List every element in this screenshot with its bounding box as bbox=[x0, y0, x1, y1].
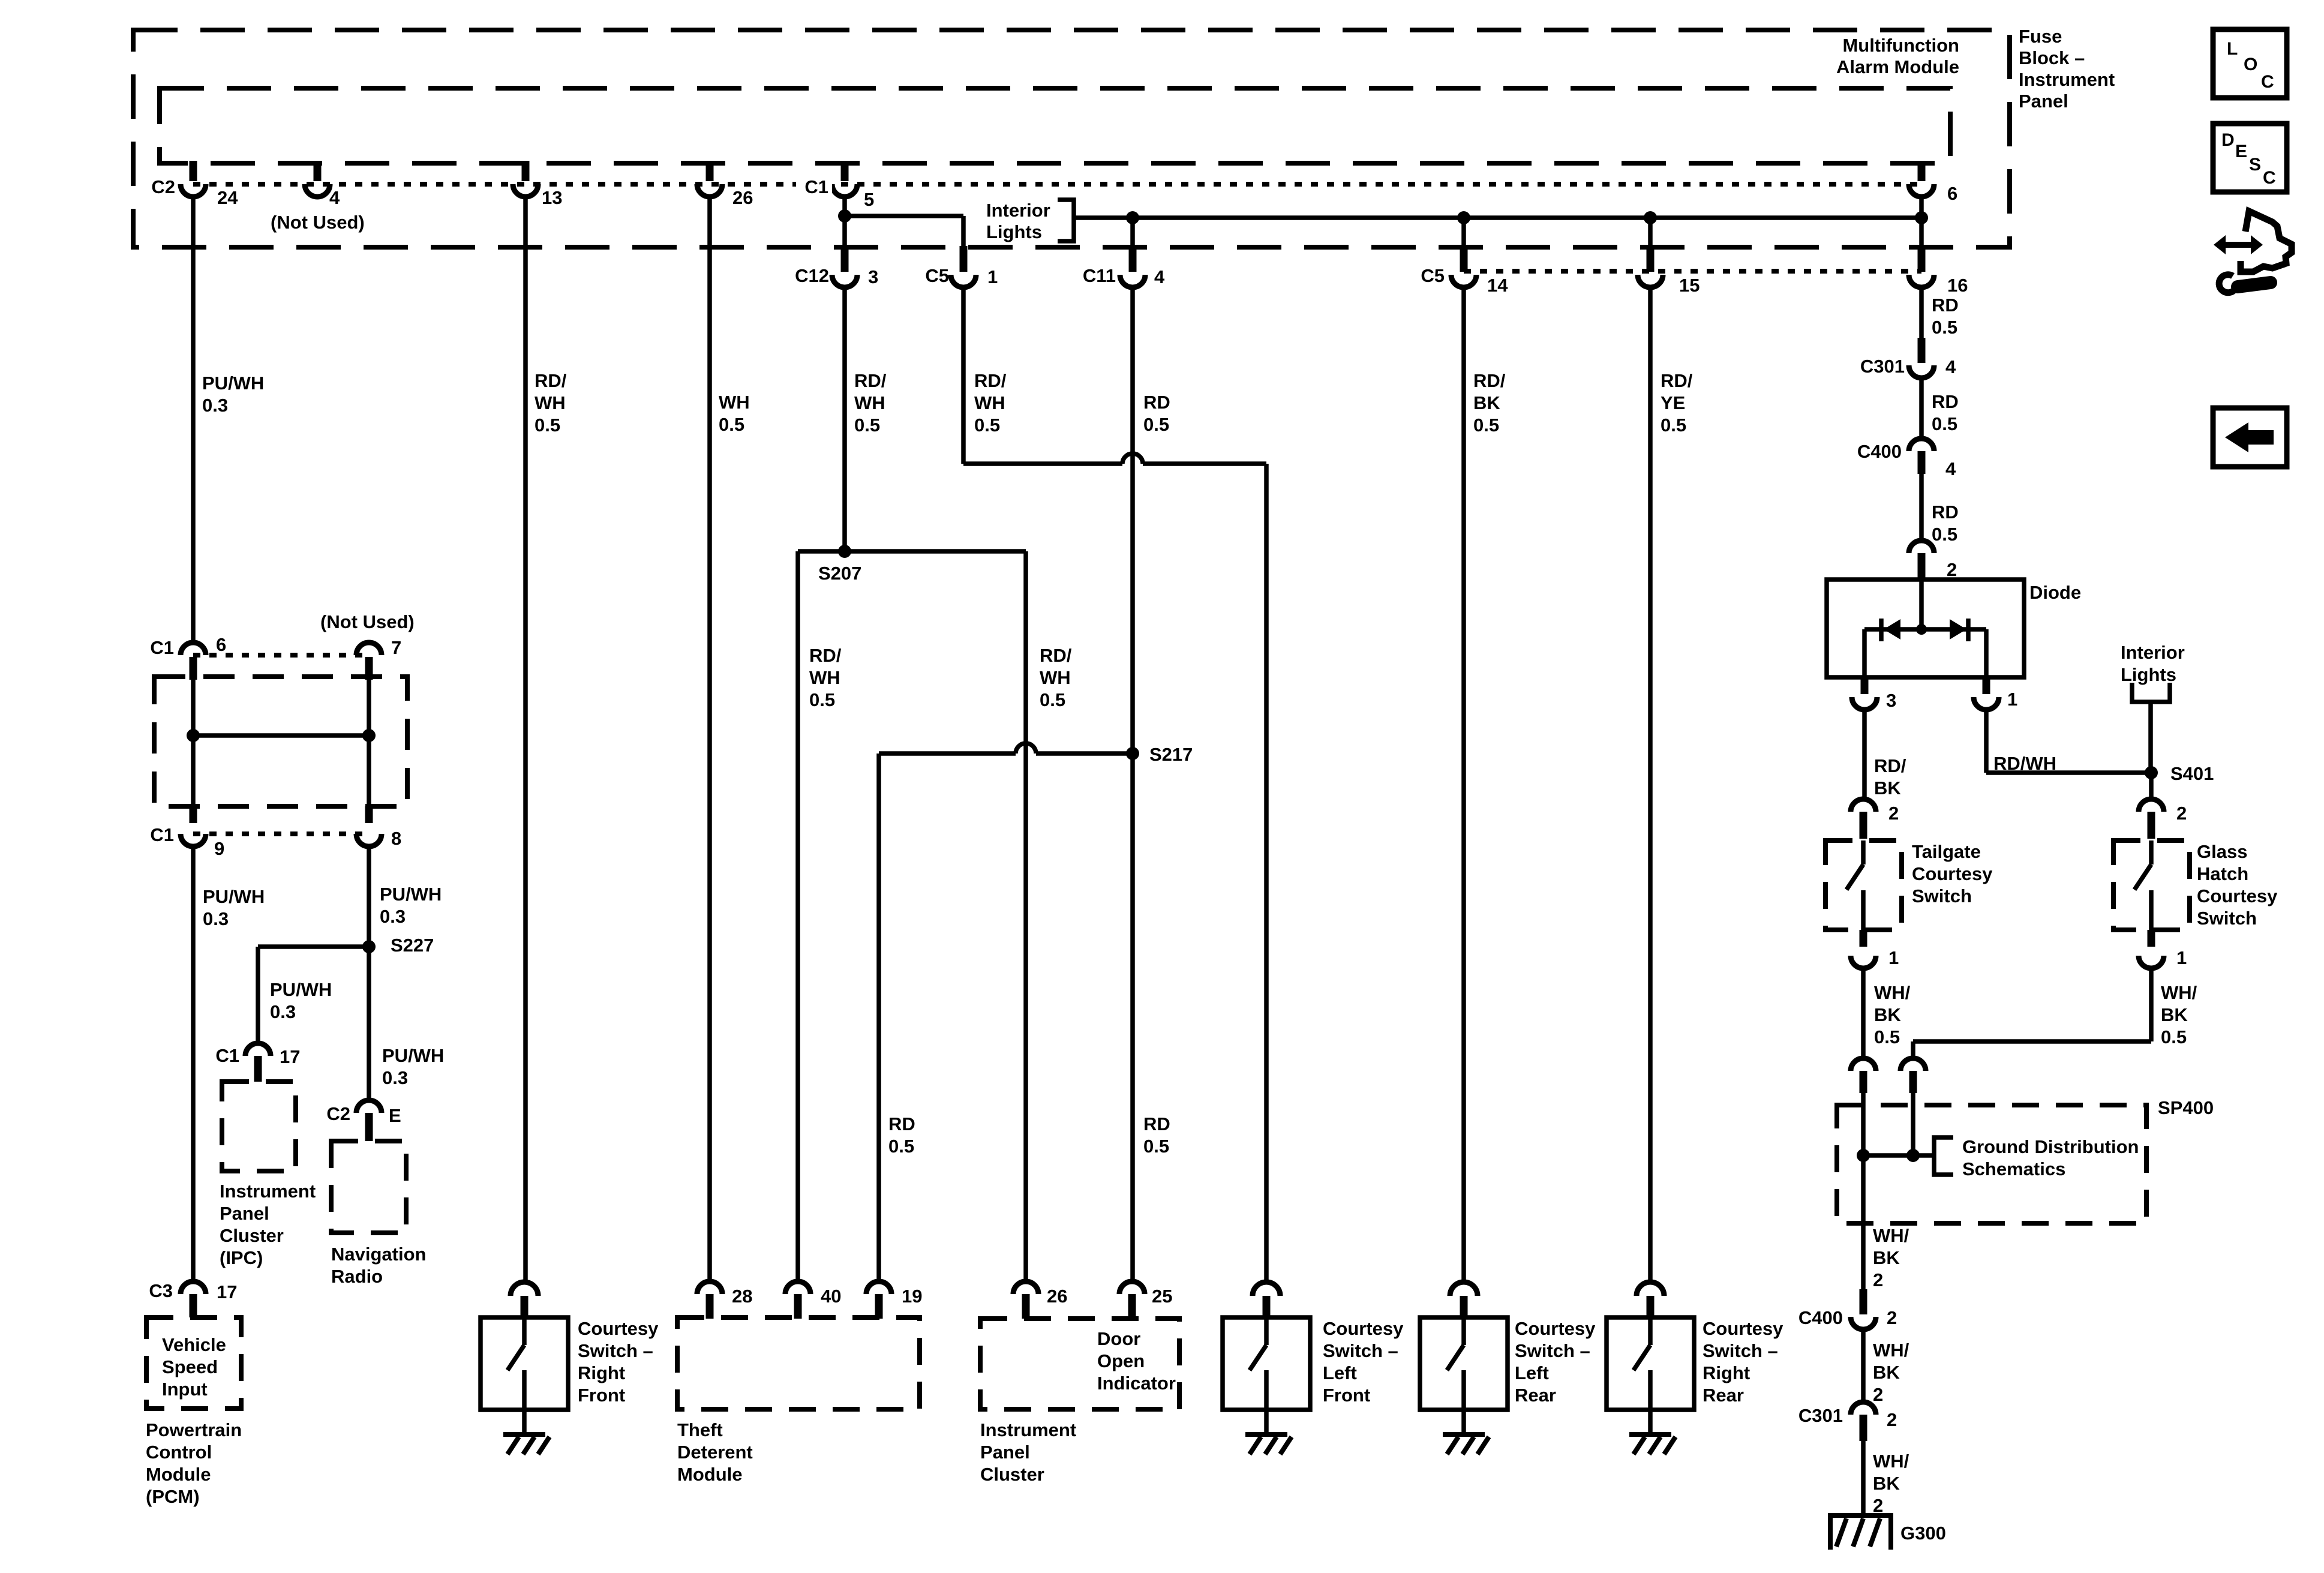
svg-text:BK: BK bbox=[1874, 778, 1901, 798]
svg-text:S217: S217 bbox=[1149, 744, 1193, 765]
svg-text:2: 2 bbox=[1887, 1307, 1897, 1328]
svg-text:Open: Open bbox=[1097, 1350, 1145, 1371]
svg-text:Courtesy: Courtesy bbox=[2197, 885, 2278, 906]
svg-text:Powertrain: Powertrain bbox=[146, 1419, 242, 1440]
svg-text:PU/WH: PU/WH bbox=[380, 884, 442, 905]
svg-text:2: 2 bbox=[1873, 1384, 1883, 1405]
svg-text:Module: Module bbox=[677, 1464, 743, 1485]
svg-text:Schematics: Schematics bbox=[1962, 1158, 2065, 1179]
svg-text:Indicator: Indicator bbox=[1097, 1373, 1176, 1394]
svg-text:2: 2 bbox=[1947, 559, 1957, 580]
svg-text:6: 6 bbox=[1947, 183, 1957, 204]
svg-text:RD/: RD/ bbox=[1874, 755, 1906, 776]
svg-text:26: 26 bbox=[1047, 1286, 1067, 1307]
svg-text:Module: Module bbox=[146, 1464, 211, 1485]
svg-text:17: 17 bbox=[280, 1046, 300, 1067]
svg-text:C400: C400 bbox=[1857, 441, 1902, 462]
svg-text:3: 3 bbox=[868, 266, 878, 287]
svg-text:WH/: WH/ bbox=[1873, 1451, 1909, 1472]
svg-text:C5: C5 bbox=[925, 265, 949, 286]
svg-text:C1: C1 bbox=[150, 824, 174, 845]
svg-text:WH/: WH/ bbox=[2161, 982, 2197, 1003]
svg-text:WH: WH bbox=[1040, 667, 1071, 688]
svg-text:0.5: 0.5 bbox=[535, 415, 560, 436]
svg-text:19: 19 bbox=[902, 1286, 922, 1307]
svg-text:Ground Distribution: Ground Distribution bbox=[1962, 1136, 2139, 1157]
svg-text:0.3: 0.3 bbox=[382, 1067, 408, 1088]
svg-text:C11: C11 bbox=[1083, 265, 1116, 286]
svg-text:Courtesy: Courtesy bbox=[1515, 1318, 1596, 1339]
svg-text:C: C bbox=[2263, 168, 2276, 188]
svg-text:4: 4 bbox=[329, 187, 340, 208]
svg-text:Interior: Interior bbox=[986, 200, 1050, 221]
svg-text:WH: WH bbox=[535, 392, 566, 413]
svg-text:0.5: 0.5 bbox=[1040, 689, 1065, 710]
svg-text:0.3: 0.3 bbox=[202, 395, 228, 416]
svg-text:BK: BK bbox=[1873, 1247, 1900, 1268]
svg-text:Panel: Panel bbox=[2019, 91, 2068, 112]
svg-text:Courtesy: Courtesy bbox=[1703, 1318, 1783, 1339]
svg-text:1: 1 bbox=[987, 266, 998, 287]
svg-text:C1: C1 bbox=[150, 637, 174, 658]
svg-text:S207: S207 bbox=[818, 563, 861, 584]
svg-text:PU/WH: PU/WH bbox=[203, 886, 265, 907]
svg-text:C301: C301 bbox=[1860, 356, 1905, 377]
svg-text:RD/: RD/ bbox=[1473, 370, 1506, 391]
svg-text:WH/: WH/ bbox=[1873, 1225, 1909, 1246]
svg-text:C: C bbox=[2261, 72, 2274, 92]
svg-text:Theft: Theft bbox=[677, 1419, 723, 1440]
svg-text:Block –: Block – bbox=[2019, 47, 2085, 68]
svg-text:(PCM): (PCM) bbox=[146, 1486, 200, 1507]
svg-text:O: O bbox=[2244, 55, 2257, 74]
svg-text:Front: Front bbox=[578, 1385, 625, 1406]
svg-text:9: 9 bbox=[214, 838, 224, 859]
svg-text:Instrument: Instrument bbox=[2019, 69, 2115, 90]
svg-text:Switch –: Switch – bbox=[1323, 1340, 1398, 1361]
svg-text:RD: RD bbox=[1143, 392, 1170, 413]
svg-text:(Not Used): (Not Used) bbox=[320, 611, 415, 632]
svg-text:Courtesy: Courtesy bbox=[578, 1318, 659, 1339]
svg-text:0.3: 0.3 bbox=[380, 906, 406, 927]
svg-text:Fuse: Fuse bbox=[2019, 26, 2062, 47]
svg-text:Diode: Diode bbox=[2029, 582, 2081, 603]
svg-text:Tailgate: Tailgate bbox=[1912, 841, 1981, 862]
svg-text:Door: Door bbox=[1097, 1328, 1140, 1349]
svg-text:1: 1 bbox=[2007, 689, 2017, 710]
svg-text:Cluster: Cluster bbox=[980, 1464, 1044, 1485]
svg-text:Switch –: Switch – bbox=[1515, 1340, 1590, 1361]
svg-text:0.5: 0.5 bbox=[1874, 1026, 1900, 1047]
svg-text:0.3: 0.3 bbox=[203, 908, 229, 929]
svg-text:2: 2 bbox=[1873, 1495, 1883, 1516]
svg-text:17: 17 bbox=[217, 1281, 237, 1302]
svg-text:Front: Front bbox=[1323, 1385, 1370, 1406]
svg-text:26: 26 bbox=[732, 187, 753, 208]
svg-text:Navigation: Navigation bbox=[331, 1244, 426, 1265]
svg-text:WH: WH bbox=[854, 392, 885, 413]
svg-text:RD/: RD/ bbox=[1040, 645, 1072, 666]
svg-text:RD: RD bbox=[1932, 391, 1959, 412]
svg-text:S: S bbox=[2249, 155, 2261, 175]
svg-text:Interior: Interior bbox=[2121, 642, 2185, 663]
svg-text:WH: WH bbox=[809, 667, 840, 688]
svg-text:Switch –: Switch – bbox=[578, 1340, 653, 1361]
svg-text:Radio: Radio bbox=[331, 1266, 383, 1287]
svg-text:6: 6 bbox=[216, 634, 226, 655]
svg-text:E: E bbox=[2235, 142, 2247, 161]
svg-text:Left: Left bbox=[1515, 1362, 1549, 1383]
svg-text:0.5: 0.5 bbox=[1932, 413, 1957, 434]
svg-text:15: 15 bbox=[1679, 275, 1700, 296]
svg-text:Deterent: Deterent bbox=[677, 1442, 753, 1463]
svg-text:1: 1 bbox=[1888, 947, 1899, 968]
svg-text:C1: C1 bbox=[215, 1045, 239, 1066]
svg-text:S227: S227 bbox=[391, 935, 434, 956]
svg-text:0.5: 0.5 bbox=[854, 415, 880, 436]
svg-text:Control: Control bbox=[146, 1442, 212, 1463]
svg-text:C5: C5 bbox=[1421, 265, 1445, 286]
svg-text:24: 24 bbox=[217, 187, 238, 208]
svg-text:Switch: Switch bbox=[2197, 908, 2257, 929]
svg-text:RD/: RD/ bbox=[535, 370, 567, 391]
svg-text:PU/WH: PU/WH bbox=[270, 979, 332, 1000]
svg-text:S401: S401 bbox=[2170, 763, 2214, 784]
svg-text:13: 13 bbox=[542, 187, 562, 208]
svg-text:BK: BK bbox=[2161, 1004, 2188, 1025]
svg-text:0.5: 0.5 bbox=[974, 415, 1000, 436]
svg-text:C400: C400 bbox=[1798, 1307, 1843, 1328]
svg-text:7: 7 bbox=[391, 637, 401, 658]
svg-text:Speed: Speed bbox=[162, 1356, 218, 1377]
svg-text:Rear: Rear bbox=[1703, 1385, 1744, 1406]
svg-text:SP400: SP400 bbox=[2158, 1097, 2214, 1118]
svg-text:C2: C2 bbox=[326, 1103, 350, 1124]
svg-text:Input: Input bbox=[162, 1379, 208, 1400]
svg-text:Switch –: Switch – bbox=[1703, 1340, 1778, 1361]
svg-text:Instrument: Instrument bbox=[980, 1419, 1076, 1440]
svg-text:(Not Used): (Not Used) bbox=[271, 212, 365, 233]
svg-text:2: 2 bbox=[2176, 803, 2187, 824]
svg-text:WH/: WH/ bbox=[1873, 1340, 1909, 1361]
svg-text:Lights: Lights bbox=[986, 221, 1042, 242]
svg-text:2: 2 bbox=[1888, 803, 1899, 824]
svg-text:40: 40 bbox=[821, 1286, 841, 1307]
svg-text:4: 4 bbox=[1945, 356, 1956, 377]
svg-text:16: 16 bbox=[1947, 275, 1968, 296]
svg-text:1: 1 bbox=[2176, 947, 2187, 968]
svg-text:BK: BK bbox=[1873, 1362, 1900, 1383]
svg-text:Cluster: Cluster bbox=[220, 1225, 284, 1246]
svg-text:0.5: 0.5 bbox=[1661, 415, 1686, 436]
svg-text:G300: G300 bbox=[1900, 1523, 1946, 1544]
svg-text:Vehicle: Vehicle bbox=[162, 1334, 226, 1355]
svg-text:RD/: RD/ bbox=[974, 370, 1007, 391]
svg-text:Left: Left bbox=[1323, 1362, 1357, 1383]
svg-text:WH/: WH/ bbox=[1874, 982, 1911, 1003]
svg-text:BK: BK bbox=[1473, 392, 1500, 413]
svg-text:0.3: 0.3 bbox=[270, 1001, 296, 1022]
svg-text:RD/: RD/ bbox=[854, 370, 887, 391]
svg-text:Courtesy: Courtesy bbox=[1323, 1318, 1404, 1339]
svg-text:25: 25 bbox=[1152, 1286, 1172, 1307]
svg-text:RD: RD bbox=[1932, 295, 1959, 316]
svg-text:C3: C3 bbox=[149, 1280, 173, 1301]
svg-text:C1: C1 bbox=[804, 176, 828, 197]
svg-text:Panel: Panel bbox=[220, 1203, 269, 1224]
svg-text:PU/WH: PU/WH bbox=[382, 1045, 444, 1066]
svg-text:Switch: Switch bbox=[1912, 885, 1972, 906]
svg-text:0.5: 0.5 bbox=[2161, 1026, 2187, 1047]
svg-text:Right: Right bbox=[1703, 1362, 1750, 1383]
svg-text:0.5: 0.5 bbox=[1932, 317, 1957, 338]
svg-text:WH: WH bbox=[974, 392, 1005, 413]
svg-text:Alarm Module: Alarm Module bbox=[1836, 56, 1959, 77]
svg-text:Glass: Glass bbox=[2197, 841, 2247, 862]
svg-text:E: E bbox=[389, 1105, 401, 1126]
svg-text:WH: WH bbox=[719, 392, 750, 413]
svg-text:8: 8 bbox=[391, 828, 401, 849]
svg-text:BK: BK bbox=[1874, 1004, 1901, 1025]
svg-text:YE: YE bbox=[1661, 392, 1685, 413]
svg-text:Rear: Rear bbox=[1515, 1385, 1556, 1406]
svg-text:BK: BK bbox=[1873, 1473, 1900, 1494]
svg-text:14: 14 bbox=[1487, 275, 1508, 296]
svg-text:Lights: Lights bbox=[2121, 664, 2176, 685]
svg-text:0.5: 0.5 bbox=[809, 689, 835, 710]
svg-text:0.5: 0.5 bbox=[1932, 524, 1957, 545]
svg-text:0.5: 0.5 bbox=[1143, 414, 1169, 435]
svg-text:C12: C12 bbox=[795, 265, 829, 286]
svg-text:RD: RD bbox=[888, 1113, 915, 1134]
svg-text:Instrument: Instrument bbox=[220, 1181, 316, 1202]
svg-text:0.5: 0.5 bbox=[1473, 415, 1499, 436]
svg-text:RD/WH: RD/WH bbox=[1993, 753, 2056, 774]
svg-text:3: 3 bbox=[1886, 690, 1896, 711]
svg-text:C2: C2 bbox=[151, 176, 175, 197]
svg-text:L: L bbox=[2227, 39, 2238, 59]
svg-text:4: 4 bbox=[1154, 266, 1165, 287]
svg-text:(IPC): (IPC) bbox=[220, 1247, 263, 1268]
svg-text:4: 4 bbox=[1945, 458, 1956, 479]
svg-text:5: 5 bbox=[864, 189, 874, 210]
svg-text:Courtesy: Courtesy bbox=[1912, 863, 1993, 884]
svg-text:Multifunction: Multifunction bbox=[1842, 35, 1959, 56]
svg-text:RD: RD bbox=[1932, 502, 1959, 523]
svg-text:2: 2 bbox=[1887, 1409, 1897, 1430]
svg-text:2: 2 bbox=[1873, 1269, 1883, 1290]
svg-text:28: 28 bbox=[732, 1286, 752, 1307]
svg-text:0.5: 0.5 bbox=[888, 1136, 914, 1157]
svg-text:0.5: 0.5 bbox=[1143, 1136, 1169, 1157]
svg-text:PU/WH: PU/WH bbox=[202, 373, 264, 394]
svg-text:D: D bbox=[2221, 130, 2235, 150]
svg-text:0.5: 0.5 bbox=[719, 414, 744, 435]
svg-text:Hatch: Hatch bbox=[2197, 863, 2248, 884]
svg-text:RD/: RD/ bbox=[809, 645, 842, 666]
svg-text:Panel: Panel bbox=[980, 1442, 1030, 1463]
svg-text:RD/: RD/ bbox=[1661, 370, 1693, 391]
svg-text:RD: RD bbox=[1143, 1113, 1170, 1134]
svg-text:Right: Right bbox=[578, 1362, 625, 1383]
svg-text:C301: C301 bbox=[1798, 1405, 1843, 1426]
